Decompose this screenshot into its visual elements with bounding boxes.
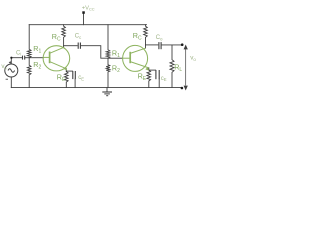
svg-text:cE: cE (161, 76, 167, 82)
svg-text:cE: cE (78, 75, 84, 81)
svg-text:Ci: Ci (16, 50, 21, 56)
svg-text:Cc: Cc (75, 34, 81, 40)
svg-text:Co: Co (156, 35, 163, 41)
svg-text:+VCC: +VCC (82, 5, 95, 11)
